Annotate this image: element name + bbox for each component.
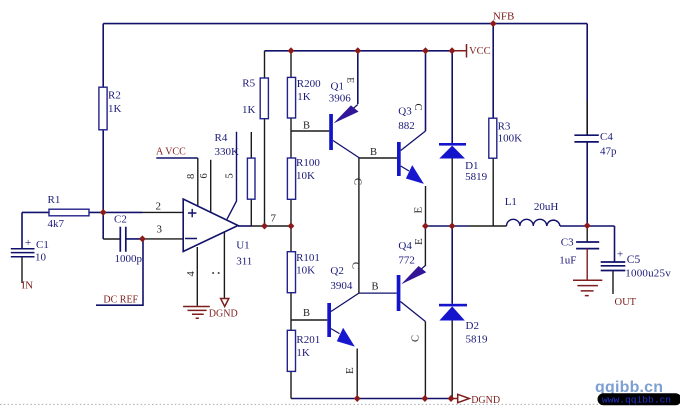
svg-text:Q3: Q3	[398, 106, 412, 118]
svg-text:DGND: DGND	[209, 309, 238, 320]
svg-text:R5: R5	[242, 78, 255, 90]
svg-text:B: B	[372, 282, 379, 293]
svg-text:8: 8	[186, 174, 197, 179]
svg-text:R101: R101	[296, 252, 320, 264]
svg-text:20uH: 20uH	[534, 201, 559, 213]
svg-text:Q2: Q2	[330, 265, 343, 277]
svg-text:C2: C2	[114, 214, 127, 226]
svg-text:E: E	[413, 238, 425, 245]
svg-text:Q1: Q1	[331, 81, 344, 93]
svg-text:882: 882	[398, 120, 415, 132]
svg-text:3: 3	[157, 224, 163, 236]
svg-text:OUT: OUT	[615, 297, 637, 308]
svg-text:B: B	[303, 121, 310, 132]
svg-text:1000p: 1000p	[115, 253, 143, 265]
svg-text:1K: 1K	[297, 91, 311, 103]
svg-text:R200: R200	[297, 78, 321, 90]
svg-text:2: 2	[156, 201, 162, 213]
svg-text:E: E	[344, 367, 356, 374]
svg-text:L1: L1	[505, 196, 517, 208]
svg-text:A: A	[156, 147, 164, 158]
svg-text:R2: R2	[108, 90, 121, 102]
svg-text:C: C	[411, 335, 422, 342]
svg-text:1K: 1K	[296, 347, 310, 359]
svg-text:C: C	[412, 104, 423, 111]
svg-text:6: 6	[199, 173, 210, 178]
svg-text:Q4: Q4	[398, 240, 412, 252]
svg-text:47p: 47p	[600, 146, 617, 158]
svg-text:C5: C5	[627, 254, 641, 266]
svg-text:3904: 3904	[330, 280, 353, 292]
svg-text:1uF: 1uF	[559, 255, 576, 267]
svg-text:1000u25v: 1000u25v	[625, 268, 671, 280]
svg-text:VCC: VCC	[165, 147, 186, 158]
svg-text:3906: 3906	[329, 93, 352, 105]
svg-text:R3: R3	[498, 120, 511, 132]
svg-text:+: +	[25, 237, 31, 249]
svg-text:311: 311	[236, 256, 252, 268]
svg-text:4k7: 4k7	[48, 218, 65, 230]
svg-text:NFB: NFB	[493, 11, 514, 23]
svg-text:E: E	[344, 77, 354, 83]
svg-text:100K: 100K	[498, 132, 522, 144]
svg-text:R4: R4	[215, 132, 228, 144]
svg-text:10K: 10K	[296, 265, 315, 277]
svg-text:10: 10	[35, 252, 47, 264]
svg-text:C: C	[350, 262, 361, 269]
svg-text:5: 5	[225, 173, 236, 178]
svg-text:C3: C3	[561, 237, 574, 249]
svg-text:U1: U1	[236, 239, 249, 251]
svg-text:4: 4	[186, 271, 197, 277]
svg-text:E: E	[413, 207, 425, 214]
svg-text:330K: 330K	[215, 146, 240, 158]
svg-text:5819: 5819	[466, 334, 489, 346]
svg-text:www.qqibb.cn: www.qqibb.cn	[602, 395, 671, 406]
svg-text:R100: R100	[296, 157, 320, 169]
svg-text:1K: 1K	[242, 104, 256, 116]
svg-text:R1: R1	[48, 194, 61, 206]
svg-text:1K: 1K	[108, 103, 122, 115]
svg-text:10K: 10K	[296, 170, 315, 182]
svg-text:B: B	[370, 147, 377, 158]
svg-text:DC REF: DC REF	[103, 295, 138, 306]
svg-text:772: 772	[398, 254, 415, 266]
svg-text:C: C	[352, 178, 363, 185]
svg-text:B: B	[303, 308, 310, 319]
svg-text:+: +	[617, 249, 623, 261]
svg-text:C1: C1	[36, 239, 49, 251]
svg-text:D2: D2	[466, 320, 479, 332]
svg-text:VCC: VCC	[469, 46, 491, 57]
svg-text:R201: R201	[296, 334, 320, 346]
svg-text:5819: 5819	[465, 171, 488, 183]
svg-text:C4: C4	[600, 131, 613, 143]
svg-text:IN: IN	[22, 280, 34, 292]
svg-text:7: 7	[271, 213, 277, 225]
